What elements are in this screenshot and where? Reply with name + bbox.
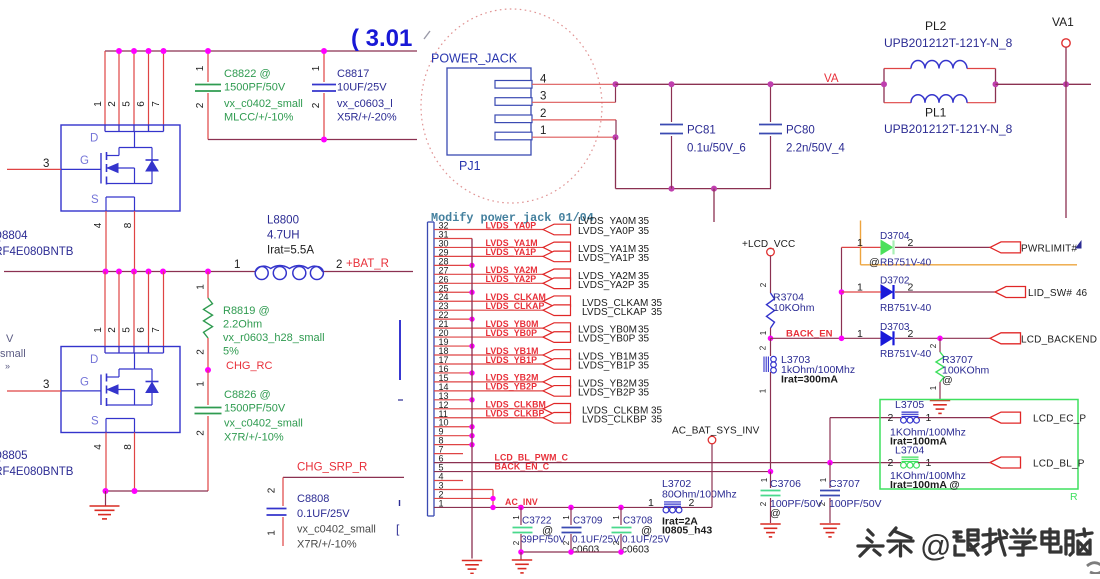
net +BAT_R rail bbox=[4, 271, 256, 273]
pin 6 wire (LVDS) bbox=[434, 462, 901, 464]
svg-text:L8800: L8800 bbox=[267, 215, 299, 227]
diode rail vertical bbox=[841, 247, 843, 338]
svg-text:LVDS_YA2P: LVDS_YA2P bbox=[578, 280, 635, 291]
svg-text:c0603: c0603 bbox=[622, 545, 650, 556]
svg-text:4: 4 bbox=[93, 222, 104, 228]
capacitor PC81 bbox=[660, 125, 683, 134]
capacitor C8822 branch wire bbox=[207, 51, 209, 82]
svg-text:35: 35 bbox=[651, 414, 663, 425]
capacitor C3709 bbox=[562, 528, 582, 533]
svg-text:1500PF/50V: 1500PF/50V bbox=[224, 403, 286, 415]
ground (LVDS bus) bbox=[462, 560, 482, 562]
svg-text:3: 3 bbox=[43, 379, 49, 391]
svg-text:LVDS_CLKAP: LVDS_CLKAP bbox=[486, 301, 545, 311]
svg-text:35: 35 bbox=[651, 307, 663, 318]
capacitor C3706 branch bbox=[770, 472, 772, 488]
pin 19 wire (LVDS) bbox=[434, 345, 472, 347]
ground (C3707) bbox=[820, 523, 840, 525]
junction dots +BAT_R rail bbox=[103, 269, 109, 275]
svg-text:39PF/50V: 39PF/50V bbox=[521, 535, 566, 546]
svg-text:G: G bbox=[80, 377, 89, 389]
svg-text:1: 1 bbox=[760, 477, 769, 482]
svg-text:AC_BAT_SYS_INV: AC_BAT_SYS_INV bbox=[672, 426, 760, 437]
svg-text:LVDS_YB0P: LVDS_YB0P bbox=[486, 328, 538, 338]
junction dot pin 25 bbox=[469, 290, 474, 295]
wire Q8804 pin 8 bbox=[134, 211, 136, 272]
svg-text:»: » bbox=[5, 361, 10, 371]
svg-text:CHG_RC: CHG_RC bbox=[226, 360, 273, 372]
svg-text:100PF/50V: 100PF/50V bbox=[829, 498, 882, 510]
ground (C3706) bbox=[760, 523, 780, 525]
svg-text:Irat=100mA @: Irat=100mA @ bbox=[890, 479, 960, 491]
svg-text:c0603: c0603 bbox=[572, 545, 600, 556]
svg-text:LVDS_YB2P: LVDS_YB2P bbox=[486, 382, 538, 392]
svg-text:[: [ bbox=[396, 522, 400, 536]
junction dot R3707 bbox=[937, 336, 943, 342]
svg-text:LVDS_YA0P: LVDS_YA0P bbox=[486, 220, 537, 230]
svg-text:4: 4 bbox=[540, 74, 547, 86]
pin 20 wire (LVDS) bbox=[434, 336, 543, 338]
svg-text:2: 2 bbox=[612, 540, 621, 545]
capacitor PC81 branch bbox=[671, 84, 673, 122]
signal tag pin 21 bbox=[543, 323, 571, 334]
signal tag pin 30 bbox=[543, 242, 571, 253]
svg-text:1: 1 bbox=[93, 327, 104, 333]
wire L3704 to tag bbox=[918, 462, 990, 464]
diode D3703 bbox=[881, 331, 894, 345]
svg-text:C8817: C8817 bbox=[337, 68, 369, 80]
svg-text:35: 35 bbox=[638, 334, 650, 345]
signal tag pin 20 bbox=[543, 332, 571, 343]
capacitor C8817 bbox=[312, 85, 336, 92]
junction dot pins 1-2 bbox=[613, 134, 619, 140]
pin 23 wire (LVDS) bbox=[434, 309, 543, 311]
pin 22 wire (LVDS) bbox=[434, 318, 472, 320]
junction dot stub bbox=[711, 186, 717, 192]
capacitor C3708 bbox=[612, 528, 632, 533]
resistor R3704 bbox=[767, 293, 775, 328]
node CHG_RC bbox=[205, 367, 211, 373]
wire CHG_SRP_R bbox=[283, 476, 404, 478]
svg-text:1: 1 bbox=[234, 259, 240, 271]
svg-text:35: 35 bbox=[638, 226, 650, 237]
svg-text:1: 1 bbox=[196, 284, 207, 290]
pin 25 wire (LVDS) bbox=[434, 291, 472, 293]
ground (R3707) bbox=[930, 400, 950, 402]
svg-text:LVDS_CLKAP: LVDS_CLKAP bbox=[582, 307, 647, 318]
wire Q8805 pin 8 bbox=[134, 433, 136, 492]
capacitor C3708 branch bbox=[620, 507, 622, 525]
svg-text:4: 4 bbox=[93, 444, 104, 450]
clipped text LVDS_YA0M row bbox=[578, 216, 650, 227]
svg-text:2: 2 bbox=[195, 102, 206, 108]
pin 24 wire (LVDS) bbox=[434, 300, 543, 302]
svg-text:2: 2 bbox=[196, 349, 207, 355]
pin 26 wire (LVDS) bbox=[434, 282, 543, 284]
svg-text:35: 35 bbox=[638, 387, 650, 398]
signal tag pin 26 bbox=[543, 278, 571, 289]
wire PJ1 pin 4 bbox=[532, 83, 616, 85]
svg-text:IRF4E080BNTB: IRF4E080BNTB bbox=[0, 246, 74, 258]
junction dot cap bottom rail bbox=[321, 137, 327, 143]
capacitor C8826 bbox=[195, 408, 222, 414]
svg-text:1: 1 bbox=[439, 498, 444, 508]
capacitor C8822 bbox=[195, 85, 221, 92]
svg-text:1: 1 bbox=[93, 101, 104, 107]
svg-text:2: 2 bbox=[759, 282, 768, 287]
watermark char wo bbox=[983, 529, 1009, 555]
svg-text:1: 1 bbox=[857, 237, 863, 249]
pin 12 wire (LVDS) bbox=[434, 408, 543, 410]
junction dot row6 C3707 bbox=[827, 460, 833, 466]
svg-text:6: 6 bbox=[136, 101, 147, 107]
svg-text:D3704: D3704 bbox=[880, 231, 910, 242]
stray blue vertical mark bbox=[399, 320, 401, 380]
svg-text:D: D bbox=[90, 133, 98, 145]
svg-text:C8826 @: C8826 @ bbox=[224, 389, 271, 401]
signal tag pin 17 bbox=[543, 359, 571, 370]
resistor R8819 bbox=[204, 298, 213, 338]
pin 27 wire (LVDS) bbox=[434, 273, 543, 275]
wire Q8804 pin 4 bbox=[105, 211, 107, 272]
svg-text:LVDS_CLKBP: LVDS_CLKBP bbox=[486, 409, 545, 419]
svg-text:VA: VA bbox=[824, 73, 839, 85]
svg-text:2.2Ohm: 2.2Ohm bbox=[223, 319, 262, 331]
capacitor C8826 branch wire bbox=[207, 370, 209, 405]
pin 13 wire (LVDS) bbox=[434, 399, 472, 401]
svg-text:Q8804: Q8804 bbox=[0, 230, 28, 242]
svg-text:vx_c0402_small: vx_c0402_small bbox=[224, 98, 303, 110]
svg-text:X5R/+/-20%: X5R/+/-20% bbox=[337, 112, 397, 124]
ferrite bead L3705 bbox=[902, 411, 919, 413]
resistor R3707 branch bbox=[939, 338, 941, 352]
svg-text:S: S bbox=[91, 194, 99, 206]
small gray mark top right bbox=[424, 31, 430, 39]
svg-text:L3705: L3705 bbox=[895, 399, 924, 411]
junction dot pin 19 bbox=[469, 343, 474, 348]
wire D3702 cathode to tag bbox=[895, 291, 995, 293]
svg-text:2: 2 bbox=[888, 412, 894, 424]
pin 17 wire (LVDS) bbox=[434, 363, 543, 365]
svg-text:LCD_BACKEND: LCD_BACKEND bbox=[1021, 335, 1097, 346]
svg-text:1: 1 bbox=[759, 388, 768, 393]
svg-text:3: 3 bbox=[540, 91, 546, 103]
svg-text:R: R bbox=[1070, 491, 1078, 503]
svg-text:4.7UH: 4.7UH bbox=[267, 230, 300, 242]
resistor R8819 branch wire bbox=[207, 272, 209, 299]
wire L3705 to tag bbox=[918, 417, 990, 419]
pin 8 wire (LVDS) bbox=[434, 444, 472, 446]
svg-text:D: D bbox=[90, 354, 98, 366]
svg-text:Q8805: Q8805 bbox=[0, 450, 28, 462]
svg-text:10UF/25V: 10UF/25V bbox=[337, 82, 387, 94]
svg-text:2: 2 bbox=[562, 540, 571, 545]
svg-text:5: 5 bbox=[122, 101, 133, 107]
svg-text:IRF4E080BNTB: IRF4E080BNTB bbox=[0, 466, 74, 478]
capacitor C8817 branch wire bbox=[323, 51, 325, 82]
svg-text:D3702: D3702 bbox=[880, 276, 910, 287]
ferrite bead L3703 (vertical) bbox=[764, 356, 776, 373]
wire D3704 cathode to tag bbox=[895, 246, 990, 248]
svg-text:POWER_JACK: POWER_JACK bbox=[431, 52, 518, 66]
pin 5 wire (LVDS) bbox=[434, 471, 771, 473]
svg-text:PC80: PC80 bbox=[786, 125, 815, 137]
wire VA1 down bbox=[1065, 47, 1067, 218]
svg-text:LID_SW#: LID_SW# bbox=[1028, 288, 1072, 299]
svg-text:1500PF/50V: 1500PF/50V bbox=[224, 82, 286, 94]
pin 15 wire (LVDS) bbox=[434, 381, 543, 383]
junction dots top rail bbox=[116, 48, 122, 54]
wire L3702 to AC_BAT_SYS_INV bbox=[711, 444, 713, 508]
signal tag LCD_BL bbox=[990, 457, 1021, 468]
svg-text:UPB201212T-121Y-N_8: UPB201212T-121Y-N_8 bbox=[884, 36, 1013, 50]
pin 3 wire (LVDS) bbox=[434, 488, 493, 490]
svg-text:2: 2 bbox=[196, 430, 207, 436]
svg-text:1: 1 bbox=[929, 385, 938, 390]
svg-text:2.2n/50V_4: 2.2n/50V_4 bbox=[786, 143, 845, 155]
svg-text:X7R/+/-10%: X7R/+/-10% bbox=[224, 432, 284, 444]
svg-text:46: 46 bbox=[1076, 288, 1088, 299]
svg-text:L3704: L3704 bbox=[895, 445, 924, 457]
pin 10 wire (LVDS) bbox=[434, 426, 472, 428]
svg-text:RB751V-40: RB751V-40 bbox=[880, 303, 932, 314]
wire VA to VA1 bbox=[996, 83, 1092, 85]
signal tag LCD_EC bbox=[990, 412, 1021, 423]
svg-text:1: 1 bbox=[540, 125, 546, 137]
svg-text:C3709: C3709 bbox=[573, 516, 603, 527]
wire top rail bbox=[105, 50, 417, 52]
wire cap bottom rail (C3722-C3708) bbox=[521, 551, 621, 553]
svg-text:1: 1 bbox=[759, 330, 768, 335]
signal tag pin 14 bbox=[543, 386, 571, 397]
svg-text:@: @ bbox=[920, 528, 951, 563]
svg-text:1: 1 bbox=[512, 515, 521, 520]
green group box bbox=[880, 400, 1078, 490]
junction dot pin 8 bbox=[469, 442, 474, 447]
connector J1 body (LVDS) bbox=[427, 222, 429, 516]
wire gate Q8805 node 3 bbox=[7, 390, 61, 392]
pin 2 wire (LVDS) bbox=[434, 497, 493, 499]
svg-text:1: 1 bbox=[196, 381, 207, 387]
svg-text:BACK_EN_C: BACK_EN_C bbox=[495, 462, 550, 472]
svg-text:5: 5 bbox=[122, 327, 133, 333]
capacitor C3706 bbox=[761, 491, 781, 496]
signal tag pin 18 bbox=[543, 350, 571, 361]
wire L3705 elbow bbox=[829, 418, 831, 463]
svg-text:( 3.01: ( 3.01 bbox=[351, 25, 412, 52]
svg-text:2: 2 bbox=[512, 540, 521, 545]
svg-text:PWRLIMIT#: PWRLIMIT# bbox=[1021, 244, 1077, 255]
wire pin drops 1,2,5,6,7 to Q8804 bbox=[104, 51, 106, 131]
wire stub down bbox=[713, 189, 715, 222]
signal tag LID_SW# bbox=[995, 287, 1026, 298]
wire D3703 cathode to tag bbox=[895, 337, 990, 339]
svg-text:G: G bbox=[80, 155, 89, 167]
watermark char tou bbox=[858, 530, 883, 556]
svg-text:80Ohm/100Mhz: 80Ohm/100Mhz bbox=[662, 489, 737, 501]
svg-text:Irat=5.5A: Irat=5.5A bbox=[267, 245, 314, 257]
wire gate Q8804 node 3 bbox=[7, 168, 61, 170]
inductor pair box PL2 PL1 bbox=[884, 69, 996, 103]
pin 28 wire (LVDS) bbox=[434, 264, 472, 266]
resistor R3707 bbox=[936, 352, 944, 382]
signal tag LCD_BACKE bbox=[990, 333, 1021, 344]
svg-text:AC_INV: AC_INV bbox=[505, 497, 538, 507]
watermark char nao bbox=[1066, 529, 1092, 555]
svg-text:vx_r0603_h28_small: vx_r0603_h28_small bbox=[223, 332, 325, 344]
svg-text:6: 6 bbox=[136, 327, 147, 333]
svg-text:C3707: C3707 bbox=[829, 478, 860, 490]
svg-text:S: S bbox=[91, 416, 99, 428]
svg-text:0.1UF/25V: 0.1UF/25V bbox=[297, 508, 350, 520]
power jack highlight circle (dotted) bbox=[421, 9, 602, 203]
capacitor C3707 branch bbox=[829, 463, 831, 488]
junction dot BACK_EN_C bbox=[768, 469, 774, 475]
capacitor C3709 branch bbox=[570, 507, 572, 525]
wire R3704 to BACK_EN bbox=[770, 328, 772, 338]
svg-text:8: 8 bbox=[123, 222, 134, 228]
svg-text:vx_c0402_small: vx_c0402_small bbox=[224, 418, 303, 430]
svg-text:C8808: C8808 bbox=[297, 493, 329, 505]
node AC_BAT_SYS_INV bbox=[708, 436, 716, 444]
signal tag pin 23 bbox=[543, 305, 571, 316]
svg-text:RB751V-40: RB751V-40 bbox=[880, 349, 932, 360]
diode D3704 bbox=[881, 240, 894, 254]
svg-text:2: 2 bbox=[759, 345, 768, 350]
svg-text:5%: 5% bbox=[223, 346, 239, 358]
svg-text:X7R/+/-10%: X7R/+/-10% bbox=[297, 539, 357, 551]
svg-text:LVDS_CLKBP: LVDS_CLKBP bbox=[582, 414, 647, 425]
net VA rail bbox=[616, 83, 885, 85]
svg-text:2: 2 bbox=[818, 501, 827, 506]
signal tag pin 24 bbox=[543, 296, 571, 307]
svg-text:small: small bbox=[0, 348, 26, 360]
svg-text:2: 2 bbox=[311, 102, 322, 108]
svg-text:CHG_SRP_R: CHG_SRP_R bbox=[297, 462, 367, 474]
svg-text:2: 2 bbox=[888, 457, 894, 469]
svg-text:RB751V-40: RB751V-40 bbox=[880, 258, 932, 269]
ferrite bead L3703 branch wire bbox=[770, 338, 772, 356]
svg-text:8: 8 bbox=[123, 444, 134, 450]
svg-text:PL1: PL1 bbox=[925, 106, 947, 120]
svg-text:35: 35 bbox=[638, 253, 650, 264]
wire R3707 to ground bbox=[939, 382, 941, 399]
wire PJ1 pin 2 bbox=[532, 119, 616, 121]
svg-text:@: @ bbox=[770, 508, 781, 520]
pin 21 wire (LVDS) bbox=[434, 327, 543, 329]
svg-text:MLCC/+/-10%: MLCC/+/-10% bbox=[224, 112, 294, 124]
svg-text:D3703: D3703 bbox=[880, 322, 910, 333]
svg-text:1: 1 bbox=[267, 530, 278, 536]
pin 9 wire (LVDS) bbox=[434, 435, 472, 437]
signal tag pin 12 bbox=[543, 404, 571, 415]
svg-text:vx_c0603_l: vx_c0603_l bbox=[337, 98, 393, 110]
pin 4 wire (LVDS) bbox=[434, 480, 463, 482]
junction dot VA1 bbox=[1063, 81, 1069, 87]
wire PJ1 pin 1 bbox=[532, 136, 616, 138]
svg-text:LCD_EC_P: LCD_EC_P bbox=[1033, 414, 1086, 425]
svg-text:1: 1 bbox=[819, 477, 828, 482]
wire pins 1-2 down to cap bottom rail bbox=[615, 137, 617, 188]
capacitor C8808 branch wire bbox=[282, 477, 284, 506]
wire pins 3-2-1 tie bbox=[492, 489, 494, 507]
svg-text:VA1: VA1 bbox=[1052, 15, 1074, 29]
pin 18 wire (LVDS) bbox=[434, 354, 543, 356]
inductor L8800 bbox=[255, 266, 323, 280]
ferrite bead L3702 bbox=[664, 501, 681, 503]
svg-text:3: 3 bbox=[43, 158, 49, 170]
wire PJ1 pin 3 bbox=[532, 101, 616, 103]
ground (left page) bbox=[105, 491, 107, 506]
svg-text:2: 2 bbox=[107, 101, 118, 107]
svg-text:LVDS_YB1P: LVDS_YB1P bbox=[486, 355, 538, 365]
svg-text:@: @ bbox=[942, 375, 953, 387]
svg-text:LCD_BL_P: LCD_BL_P bbox=[1033, 459, 1085, 470]
wire cap bottom rail bbox=[208, 139, 417, 141]
watermark char xue bbox=[1010, 529, 1036, 555]
svg-text:LVDS_YA2P: LVDS_YA2P bbox=[486, 274, 537, 284]
junction dot PC81 bottom bbox=[669, 186, 675, 192]
svg-text:PL2: PL2 bbox=[925, 19, 947, 33]
svg-text:2: 2 bbox=[540, 108, 546, 120]
watermark char tiao bbox=[888, 528, 913, 556]
svg-text:LVDS_YA1P: LVDS_YA1P bbox=[578, 253, 635, 264]
pin 14 wire (LVDS) bbox=[434, 390, 543, 392]
svg-text:2: 2 bbox=[107, 327, 118, 333]
svg-text:2: 2 bbox=[267, 487, 278, 493]
junction dots AC_INV row bbox=[490, 505, 495, 510]
junction dot pin 9 bbox=[469, 433, 474, 438]
svg-text:7: 7 bbox=[151, 101, 162, 107]
svg-text:1: 1 bbox=[195, 65, 206, 71]
junction dot pin 2 tie bbox=[490, 496, 495, 501]
pin 7 wire (LVDS) bbox=[434, 453, 463, 455]
svg-text:1: 1 bbox=[648, 497, 654, 509]
pin 11 wire (LVDS) bbox=[434, 417, 543, 419]
svg-text:1: 1 bbox=[562, 515, 571, 520]
capacitor PC80 bbox=[759, 125, 782, 134]
svg-text:LVDS_YA0P: LVDS_YA0P bbox=[578, 226, 635, 237]
signal tag pin 11 bbox=[543, 412, 571, 423]
pin 30 wire (LVDS) bbox=[434, 246, 543, 248]
svg-text:2: 2 bbox=[759, 501, 768, 506]
wire R8819 to CHG_RC bbox=[207, 338, 209, 370]
inductor PL2 bbox=[911, 61, 967, 69]
capacitor C3707 bbox=[820, 491, 840, 496]
wire Q8805 pin 4 bbox=[105, 433, 107, 492]
svg-text:10KOhm: 10KOhm bbox=[773, 302, 815, 314]
wire LCD_VCC to R3704 bbox=[770, 256, 772, 293]
diode D3702 bbox=[881, 285, 894, 299]
pin 29 wire (LVDS) bbox=[434, 255, 543, 257]
net BACK_EN bbox=[768, 336, 774, 342]
wire L3703 down to BACK_EN_C row bbox=[770, 372, 772, 472]
svg-text:V: V bbox=[6, 333, 14, 345]
wire pin drops 1,2,5,6,7 to Q8805 bbox=[104, 272, 106, 353]
svg-text:7: 7 bbox=[151, 327, 162, 333]
junction dot diode rail D3702 bbox=[839, 289, 845, 295]
svg-text:I0805_h43: I0805_h43 bbox=[662, 525, 712, 537]
svg-text:PJ1: PJ1 bbox=[459, 159, 481, 173]
svg-text:C3706: C3706 bbox=[770, 478, 801, 490]
svg-text:LVDS_YB1P: LVDS_YB1P bbox=[578, 361, 636, 372]
junction dots PL box bbox=[881, 81, 887, 87]
signal tag PWRLIMIT# bbox=[990, 242, 1021, 253]
svg-text:@: @ bbox=[869, 257, 880, 269]
junction dot pin 10 bbox=[469, 424, 474, 429]
transistor Q8805 bbox=[61, 347, 180, 433]
junction dots ground rail bbox=[103, 488, 109, 494]
